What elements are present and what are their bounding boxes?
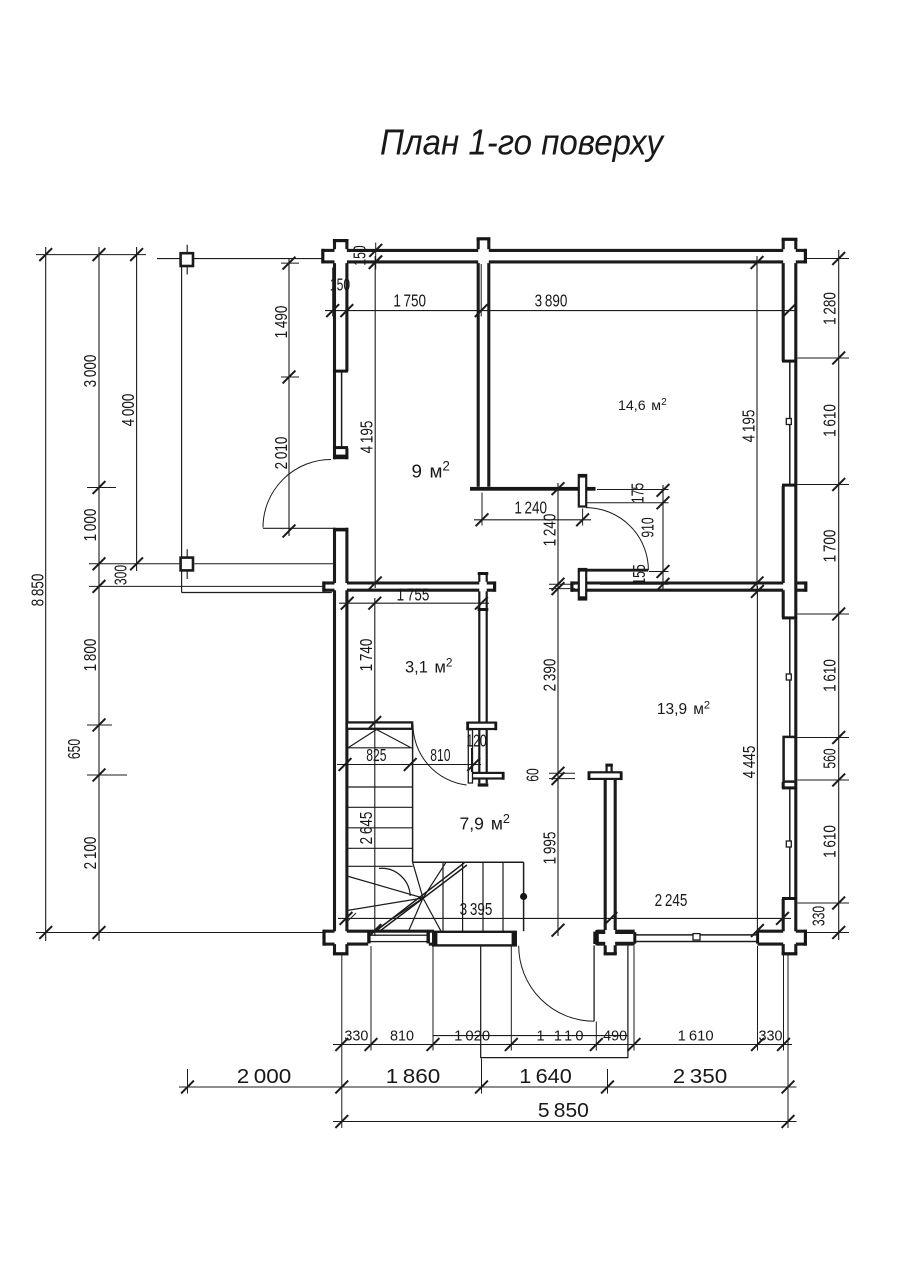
wall C: top stub above crossbar: [605, 765, 607, 772]
wall B between room 3.1 and hall: [478, 574, 480, 582]
wall: middle horizontal partition, top face: [324, 581, 335, 584]
dim line 3395/2245 y=918.4: [338, 917, 791, 919]
wall C: bottom crossing right tab: [615, 932, 633, 934]
left dim extension lines: [36, 254, 146, 256]
svg-text:1 700: 1 700: [820, 530, 840, 563]
svg-text:План 1-го поверху: План 1-го поверху: [380, 122, 665, 163]
door jamb post lower crossing mid wall (x583): [579, 569, 586, 600]
right dim extension lines: [806, 258, 849, 260]
door D2 (910) swing arc: [586, 508, 649, 571]
dim row1 y=1044.5: [333, 1044, 792, 1046]
dim line L1 (8850) x=45.7: [45, 247, 47, 941]
dim line 1740/2645 x=374.8: [374, 598, 376, 936]
svg-text:825: 825: [366, 745, 386, 765]
svg-text:3 890: 3 890: [535, 290, 568, 310]
svg-text:4 195: 4 195: [739, 410, 759, 443]
svg-text:4 195: 4 195: [357, 421, 377, 454]
svg-text:1 000: 1 000: [80, 509, 100, 542]
wall C: top crossbar log: [589, 772, 621, 779]
dim line 1240/2390/1995 x=558: [557, 483, 559, 936]
dim line 4195-right x=757: [756, 256, 758, 588]
svg-text:810: 810: [430, 745, 450, 765]
wall C between rooms 7.9 and 13.9 (x610): [604, 780, 607, 930]
wall: left exterior, outer face: [333, 241, 336, 250]
double break tick at y775: [549, 772, 575, 774]
svg-text:1 995: 1 995: [540, 832, 560, 865]
svg-text:3,1 м2: 3,1 м2: [405, 656, 453, 677]
dim line L2 x=99: [98, 247, 100, 941]
svg-text:2 000: 2 000: [237, 1065, 292, 1088]
wall: bottom exterior, left tab cap: [322, 930, 325, 946]
wall: left exterior, bottom tab cap: [333, 952, 349, 955]
porch terrace: left edge line: [181, 259, 183, 593]
dim line 175/910/155 x=663: [662, 485, 664, 590]
door D3 (810) at stair: swing arc: [413, 725, 467, 786]
svg-text:120: 120: [466, 730, 486, 750]
svg-text:8 850: 8 850: [28, 574, 48, 607]
svg-text:1 240: 1 240: [540, 514, 560, 547]
svg-text:4 445: 4 445: [739, 746, 759, 779]
wall: top exterior, inner face: [323, 260, 335, 263]
svg-text:2 010: 2 010: [271, 437, 291, 470]
svg-text:650: 650: [64, 739, 84, 759]
wall C: bottom crossing left tab: [595, 932, 606, 934]
wall: bottom exterior, right tab cap: [804, 930, 807, 946]
door D4 entrance: swing arc: [519, 946, 594, 1021]
svg-text:150: 150: [330, 275, 350, 295]
wall: bottom exterior, bottom face: [324, 943, 335, 946]
wall B: crossbar log at stair door head: [468, 723, 496, 729]
row2 extension lines: [187, 1069, 189, 1094]
bottom wall cap right of entrance opening: [595, 930, 598, 945]
wall: right exterior, outer face: [794, 239, 797, 249]
stair: treads upper flight: [347, 747, 413, 749]
svg-text:330: 330: [759, 1028, 783, 1044]
entrance door unit in bottom wall: [433, 932, 516, 946]
dim line 1755 y=603.2: [339, 602, 489, 604]
svg-text:14,6 м2: 14,6 м2: [618, 397, 667, 414]
row1 extension lines: [341, 954, 343, 1051]
svg-text:60: 60: [523, 768, 543, 781]
door D1 left wall: swing arc: [263, 460, 331, 528]
svg-text:910: 910: [638, 517, 658, 537]
door D4 entrance: leaf line: [593, 945, 595, 1021]
wall: top exterior, outer face: [323, 249, 335, 252]
window W1 in left wall (1000): [341, 371, 343, 449]
window W6 bottom wall (1610): [635, 934, 758, 936]
window W4 right wall (1610 bottom): [789, 789, 791, 900]
wall C: bottom tab cap: [604, 952, 617, 955]
porch column top (square): [181, 253, 193, 266]
svg-text:490: 490: [603, 1028, 627, 1044]
door jamb post upper (x583): [579, 475, 586, 507]
wall: left exterior, top tab cap: [333, 239, 349, 242]
door D1 left wall: lintel cap above opening: [333, 455, 348, 460]
stair: direction arrow chevron: [349, 730, 377, 748]
dim row3 y=1121.5: [333, 1121, 797, 1123]
window W3 right wall (1610 mid): [789, 618, 791, 738]
door D2 (910) leaf open into room 14.6: [587, 569, 649, 572]
stair: top landing cap: [347, 722, 412, 728]
svg-text:1 750: 1 750: [393, 290, 426, 310]
porch bottom: outline: [481, 946, 628, 1058]
wall: bottom exterior, top face: [324, 930, 335, 933]
svg-text:5 850: 5 850: [538, 1099, 589, 1122]
svg-text:3 395: 3 395: [460, 899, 493, 919]
wall: right exterior, bottom tab cap: [782, 952, 798, 955]
dim line 1240 horizontal y=519.8: [474, 519, 591, 521]
svg-text:7,9 м2: 7,9 м2: [460, 812, 510, 833]
svg-text:330: 330: [344, 1028, 368, 1044]
wall B: lower crossbar log: [471, 773, 503, 779]
svg-text:2 350: 2 350: [673, 1065, 728, 1088]
svg-text:810: 810: [390, 1028, 414, 1044]
svg-text:2 100: 2 100: [80, 837, 100, 870]
dim ext lines for top dims: [332, 268, 334, 317]
svg-text:1 640: 1 640: [519, 1065, 572, 1088]
stair: lower flight top edge: [413, 861, 524, 863]
svg-text:1 610: 1 610: [820, 825, 840, 858]
porch bottom: step edge line: [433, 1035, 628, 1037]
window unit 560 right wall: [784, 737, 796, 782]
mid wall: cap right side of opening: [570, 581, 573, 591]
dim row2 y=1087: [179, 1086, 797, 1088]
door D3 (810): leaf panel: [468, 730, 472, 783]
wall: left exterior, inner face: [345, 241, 348, 250]
wall: right exterior, top tab cap: [782, 238, 798, 241]
porch column bottom (square): [181, 558, 193, 571]
stair: treads lower flight: [442, 862, 444, 931]
mid wall: left tab cap: [322, 581, 325, 591]
wall A: bottom end cap bar (stub wall cap): [470, 487, 596, 491]
dim leader 120 + label: [471, 748, 473, 772]
door D1 left wall: threshold line to porch: [263, 527, 335, 529]
svg-text:2 245: 2 245: [655, 890, 688, 910]
svg-text:3 000: 3 000: [80, 355, 100, 388]
svg-text:1 280: 1 280: [820, 292, 840, 325]
mid wall: cap at opening to room 9: [493, 581, 496, 591]
svg-text:1 610: 1 610: [820, 659, 840, 692]
svg-text:1 800: 1 800: [80, 639, 100, 672]
wall: middle horizontal partition, bottom face: [324, 589, 335, 592]
dim line right x=838.7: [838, 250, 840, 940]
porch terrace: top edge line: [157, 258, 322, 260]
stair: lower flight right edge with newel: [523, 862, 525, 931]
svg-text:1 755: 1 755: [397, 585, 430, 605]
svg-text:13,9 м2: 13,9 м2: [657, 699, 710, 718]
svg-text:1 490: 1 490: [271, 306, 291, 339]
svg-text:1 020: 1 020: [454, 1028, 490, 1044]
dim line 4445 x=757.4: [756, 586, 758, 936]
door D1 left wall: cap below opening: [333, 528, 348, 532]
svg-text:2 645: 2 645: [356, 812, 376, 845]
svg-text:155: 155: [629, 564, 649, 584]
window W2 right wall (1610 top): [789, 361, 791, 486]
dim line 1750/3890 at y310.6: [325, 310, 797, 312]
svg-text:1 740: 1 740: [356, 639, 376, 672]
dim 150 top wall: small vertical line + ticks: [375, 243, 377, 270]
svg-text:330: 330: [809, 906, 829, 926]
svg-text:2 390: 2 390: [540, 659, 560, 692]
double break tick at y586: [549, 583, 575, 585]
window W5 bottom wall (810): [369, 935, 429, 941]
svg-text:4 000: 4 000: [118, 394, 138, 427]
svg-text:175: 175: [628, 483, 648, 503]
wall: right exterior, inner face: [782, 239, 785, 249]
svg-text:1 110: 1 110: [537, 1028, 584, 1044]
wall A between rooms 9 and 14.6: [477, 239, 480, 249]
stair: walk line arc: [379, 868, 410, 896]
dim line 4195-left x=375.2: [374, 256, 376, 588]
wall: top exterior, end caps: [321, 249, 324, 264]
svg-text:560: 560: [820, 748, 840, 768]
mid wall: right tab cap: [804, 581, 807, 591]
stair: winder radial treads: [347, 876, 423, 898]
svg-text:1 860: 1 860: [386, 1065, 441, 1088]
dim line 825/810 y=764.5: [337, 764, 481, 766]
svg-text:150: 150: [350, 245, 370, 265]
dim line L3 (4000) x=136.6: [136, 247, 138, 571]
svg-text:1 610: 1 610: [820, 404, 840, 437]
stair: stringer rail double diagonal: [376, 863, 465, 931]
svg-text:1 610: 1 610: [678, 1028, 714, 1044]
svg-text:300: 300: [111, 565, 131, 585]
dim line 1490/2010 x=289: [288, 258, 290, 536]
stair: upper flight inner edge: [412, 729, 414, 862]
porch terrace: bottom edge line: [182, 592, 332, 594]
